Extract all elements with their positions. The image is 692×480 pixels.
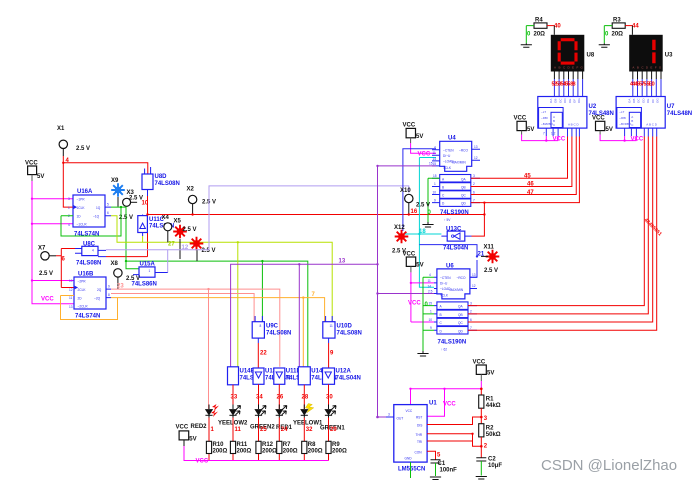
decoder U2 74LS48N: [538, 97, 614, 129]
svg-text:34: 34: [256, 395, 263, 401]
probe X12 (red lit): [392, 225, 408, 255]
svg-text:~1Q: ~1Q: [93, 215, 100, 219]
svg-text:11: 11: [235, 427, 242, 433]
svg-text:X5: X5: [174, 219, 182, 225]
svg-text:13: 13: [69, 305, 73, 309]
svg-text:X10: X10: [400, 188, 411, 194]
svg-text:14: 14: [433, 157, 437, 161]
and gate U8C: [75, 242, 106, 267]
svg-text:2.5 V: 2.5 V: [76, 146, 90, 152]
svg-text:1CLK: 1CLK: [77, 206, 86, 210]
flip-flop U16A 74LS74N: [68, 189, 111, 238]
wire purple clock distribution net13: [231, 264, 378, 367]
wire black display U3 pins: [633, 72, 661, 80]
svg-text:74LS04N: 74LS04N: [336, 376, 361, 382]
svg-text:15: 15: [433, 174, 437, 178]
svg-text:24: 24: [281, 427, 288, 433]
LED GREEN1: [320, 405, 345, 432]
svg-text:VCC: VCC: [41, 297, 54, 303]
svg-text:5V: 5V: [37, 174, 44, 180]
probe X10: [400, 188, 430, 215]
svg-text:6: 6: [470, 318, 472, 322]
svg-text:40: 40: [554, 24, 561, 30]
svg-text:X12: X12: [394, 225, 405, 231]
svg-text:X7: X7: [38, 246, 46, 252]
svg-text:CSDN @LionelZhao: CSDN @LionelZhao: [541, 457, 677, 474]
wire red U10D out net9: [328, 343, 330, 368]
svg-text:QB: QB: [461, 186, 466, 190]
svg-text:2.5: 2.5: [428, 289, 433, 293]
svg-text:OG: OG: [656, 98, 660, 103]
wire red X7 to U8C and U16B CLK: [56, 249, 75, 288]
svg-text:F: F: [655, 65, 657, 69]
svg-text:QB: QB: [458, 313, 463, 317]
svg-text:44: 44: [632, 24, 639, 30]
svg-text:E: E: [572, 65, 574, 69]
svg-text:~1CLR: ~1CLR: [77, 223, 88, 227]
svg-text:200Ω: 200Ω: [332, 449, 347, 455]
svg-text:26: 26: [277, 395, 284, 401]
svg-text:VCC: VCC: [592, 116, 605, 122]
LED RED1: [276, 405, 293, 432]
svg-text:VCC: VCC: [403, 123, 416, 129]
svg-text:OF: OF: [651, 99, 655, 103]
svg-text:R11: R11: [237, 442, 248, 448]
svg-text:R8: R8: [308, 442, 316, 448]
svg-text:11: 11: [428, 279, 432, 283]
svg-text:U10D: U10D: [337, 324, 353, 330]
svg-text:VCC: VCC: [514, 116, 527, 122]
svg-text:74LS08N: 74LS08N: [266, 331, 291, 337]
wire purple to U6 CLK: [378, 293, 435, 295]
VCC symbol (left rail): [25, 161, 44, 182]
resistor R3 20ohm: [612, 18, 626, 38]
wire green C2 to ground: [480, 461, 482, 476]
svg-text:50kΩ: 50kΩ: [486, 432, 501, 438]
svg-text:25: 25: [260, 427, 267, 433]
wire blue U7 bottom stubs: [625, 128, 657, 136]
svg-text:20Ω: 20Ω: [534, 32, 546, 38]
wire cyan X12 to U13C: [405, 233, 441, 235]
svg-text:2CLK: 2CLK: [78, 288, 87, 292]
wire green U4 A input to ground: [428, 178, 440, 222]
probe X5 (red lit): [173, 219, 196, 260]
node 48 49 50 51 (red rotated): [643, 217, 663, 237]
svg-text:~BI/RBO: ~BI/RBO: [619, 122, 632, 126]
svg-text:↑ 5V: ↑ 5V: [444, 218, 451, 222]
svg-text:OA: OA: [627, 99, 631, 103]
svg-text:5V: 5V: [606, 127, 613, 133]
svg-text:2: 2: [473, 182, 475, 186]
wire green C1 to ground: [435, 463, 437, 476]
svg-text:X11: X11: [484, 245, 495, 251]
inverter U13C: [441, 227, 471, 252]
svg-text:1 2: 1 2: [551, 132, 556, 136]
svg-text:12: 12: [69, 288, 73, 292]
svg-text:1Q: 1Q: [96, 206, 101, 210]
svg-text:8: 8: [108, 293, 110, 297]
svg-text:OF: OF: [573, 99, 577, 103]
VCC symbol (U2): [514, 116, 535, 135]
svg-text:1: 1: [434, 182, 436, 186]
wire green R4 to ground: [526, 26, 534, 44]
wire red LED RED2 to resistor R10: [208, 418, 210, 461]
svg-text:74LS04N: 74LS04N: [443, 246, 468, 252]
svg-text:~RCO: ~RCO: [457, 276, 466, 280]
wire green U6 inputs to ground: [423, 277, 434, 351]
svg-text:~2PR: ~2PR: [78, 280, 87, 284]
xor gate U15A: [98, 257, 168, 288]
wire blue U2 bottom stubs: [546, 128, 579, 136]
inverter U11D: [274, 368, 311, 384]
svg-text:5V: 5V: [487, 371, 494, 377]
wire magenta U7 VCC: [600, 135, 636, 141]
svg-text:45: 45: [524, 174, 531, 180]
svg-text:74LS190N: 74LS190N: [438, 340, 467, 346]
wire magenta VCC to U6 pins: [411, 272, 434, 322]
wire red net4 X1 to U8D and U16A CLK: [63, 156, 148, 207]
wire red CON to C1: [427, 451, 435, 459]
svg-text:74LS08N: 74LS08N: [76, 261, 101, 267]
resistor R8 200ohm: [302, 441, 323, 454]
probe X7: [38, 246, 56, 278]
wire red LED GREEN2 to resistor R12: [258, 418, 260, 461]
svg-text:TRI: TRI: [417, 440, 422, 444]
svg-text:74LS74N: 74LS74N: [75, 314, 100, 320]
wire salmon second branch: [111, 294, 254, 322]
svg-text:>CLK: >CLK: [440, 293, 449, 297]
counter U6 74LS190N: [428, 264, 478, 352]
wire red U8D output to net16: [106, 196, 148, 257]
resistor R11 200ohm: [230, 441, 251, 454]
seven segment display U3 (digit 1): [629, 35, 663, 72]
svg-text:7: 7: [473, 198, 475, 202]
svg-text:OUT: OUT: [397, 416, 404, 420]
svg-text:LM555CN: LM555CN: [398, 467, 425, 473]
decoder U7 74LS48N: [616, 97, 692, 129]
svg-text:U8D: U8D: [155, 174, 168, 180]
svg-text:9: 9: [108, 285, 110, 289]
svg-text:QD: QD: [461, 202, 466, 206]
wire cyan U4 LOAD to U6 LOAD: [419, 158, 436, 288]
svg-text:B: B: [559, 65, 561, 69]
svg-text:5V: 5V: [189, 437, 196, 443]
wire red R3 to display U3: [625, 25, 632, 27]
svg-text:2Q: 2Q: [97, 288, 102, 292]
svg-text:C2: C2: [488, 457, 496, 463]
svg-text:~2CLR: ~2CLR: [78, 305, 89, 309]
svg-text:200Ω: 200Ω: [262, 449, 277, 455]
svg-text:74LS74N: 74LS74N: [74, 232, 99, 238]
svg-text:27: 27: [168, 242, 175, 248]
svg-text:22: 22: [260, 351, 267, 357]
svg-text:A: A: [632, 65, 634, 69]
svg-text:10: 10: [429, 318, 433, 322]
svg-text:RST: RST: [416, 415, 422, 419]
svg-text:~LT: ~LT: [619, 110, 624, 114]
capacitor C1 100nF: [431, 460, 458, 474]
svg-text:R10: R10: [213, 442, 225, 448]
VCC symbol (U4): [403, 123, 424, 144]
svg-text:THR: THR: [416, 433, 423, 437]
wire magenta LED ground rail: [184, 446, 329, 461]
wire red THR TRI to junction 2: [427, 434, 481, 458]
svg-text:U1: U1: [429, 401, 437, 407]
svg-text:4: 4: [429, 273, 431, 277]
svg-text:74LS86N: 74LS86N: [132, 282, 157, 288]
VCC symbol (U7): [592, 116, 613, 135]
svg-text:DIS: DIS: [417, 424, 422, 428]
svg-text:10: 10: [69, 279, 73, 283]
wire red R1-R2 junction and DIS: [427, 408, 481, 424]
svg-text:~RBI: ~RBI: [541, 116, 548, 120]
svg-text:~2Q: ~2Q: [94, 297, 101, 301]
resistor R10 200ohm: [206, 441, 227, 454]
svg-text:13: 13: [472, 273, 476, 277]
svg-text:74LS08N: 74LS08N: [337, 331, 362, 337]
svg-text:GND: GND: [405, 457, 413, 461]
svg-text:>CLK: >CLK: [443, 166, 452, 170]
svg-text:46: 46: [527, 182, 534, 188]
svg-text:29: 29: [330, 427, 337, 433]
ground (U6): [417, 351, 428, 356]
svg-text:5: 5: [107, 203, 109, 207]
svg-text:16: 16: [411, 209, 418, 215]
and gate U8D: [142, 167, 180, 196]
wire red LED YEELOW1 to resistor R8: [303, 418, 305, 461]
svg-text:U3: U3: [665, 53, 673, 59]
svg-text:11: 11: [330, 324, 334, 328]
svg-text:14: 14: [428, 284, 432, 288]
wire green U16A 1Q long net: [111, 207, 308, 367]
and gate U9C: [252, 316, 291, 343]
wire purple main vertical (clock net): [377, 166, 379, 417]
svg-text:OB: OB: [632, 99, 636, 103]
resistor R4 20ohm: [534, 18, 548, 38]
svg-text:U2: U2: [589, 104, 597, 110]
svg-text:OE: OE: [646, 99, 650, 103]
svg-text:2.5 V: 2.5 V: [484, 268, 498, 274]
svg-text:QD: QD: [458, 329, 463, 333]
wire red U6 outputs to U7: [468, 137, 657, 331]
inverter U14B: [228, 367, 265, 385]
svg-text:~CTEN: ~CTEN: [440, 276, 451, 280]
wire red long net16: [148, 214, 485, 216]
svg-text:A B C D: A B C D: [568, 123, 580, 127]
VCC symbol (555): [473, 360, 495, 382]
ground (C1): [430, 477, 441, 480]
svg-text:1: 1: [68, 206, 70, 210]
svg-text:4: 4: [92, 249, 94, 253]
svg-text:C1: C1: [438, 461, 446, 467]
svg-text:200Ω: 200Ω: [308, 449, 323, 455]
probe X8: [111, 261, 141, 289]
svg-text:R9: R9: [332, 442, 340, 448]
svg-text:3: 3: [68, 197, 70, 201]
wire green U1 GND stub: [410, 462, 412, 478]
svg-text:VCC: VCC: [418, 152, 431, 158]
wire red gate outputs to LEDs: [233, 384, 329, 409]
inverter U11C: [138, 215, 175, 243]
wire black display U8 anode: [553, 26, 555, 35]
probe X11 (red lit): [481, 245, 499, 275]
resistor R2 50k: [479, 424, 501, 438]
wire red LED GREEN1 to resistor R9: [328, 418, 330, 461]
svg-text:13: 13: [474, 145, 478, 149]
svg-text:74LS190N: 74LS190N: [440, 210, 469, 216]
wire lime U16A ~1Q long net: [111, 216, 332, 367]
svg-text:U7: U7: [667, 104, 675, 110]
svg-text:OE: OE: [568, 99, 572, 103]
svg-text:YEELOW1: YEELOW1: [293, 421, 323, 427]
svg-text:R7: R7: [283, 442, 291, 448]
svg-text:9: 9: [434, 198, 436, 202]
svg-text:U4: U4: [448, 136, 456, 142]
inverter U14A: [298, 367, 336, 385]
svg-text:B: B: [440, 313, 442, 317]
wire red LED YEELOW2 to resistor R11: [232, 418, 234, 461]
wire magenta VCC to U4: [411, 143, 436, 153]
ground (R3): [599, 43, 610, 47]
svg-text:OB: OB: [554, 99, 558, 103]
svg-text:VCC: VCC: [443, 402, 456, 408]
wire black display U3 anode: [631, 26, 633, 35]
svg-text:D/~U: D/~U: [440, 282, 448, 286]
svg-text:1: 1: [430, 310, 432, 314]
svg-text:X2: X2: [187, 187, 195, 193]
svg-text:R1: R1: [486, 397, 494, 403]
svg-text:2: 2: [470, 310, 472, 314]
svg-text:VCC: VCC: [176, 425, 189, 431]
svg-text:~BI/RBO: ~BI/RBO: [541, 122, 554, 126]
svg-text:4: 4: [68, 223, 70, 227]
probe X3: [119, 190, 143, 221]
probe X9 (blue lit): [111, 178, 125, 207]
svg-text:12: 12: [472, 284, 476, 288]
inverter U13A: [253, 368, 290, 384]
svg-text:OA: OA: [549, 99, 553, 103]
wire blue X11 net: [419, 245, 477, 278]
svg-text:9: 9: [430, 326, 432, 330]
svg-text:44kΩ: 44kΩ: [486, 403, 501, 409]
VCC symbol (U6): [403, 252, 424, 273]
ground (U4): [422, 222, 433, 227]
svg-text:200Ω: 200Ω: [237, 449, 252, 455]
and gate U10D: [323, 316, 362, 343]
svg-text:A B C D: A B C D: [646, 123, 658, 127]
svg-text:15: 15: [429, 162, 433, 166]
svg-text:VCC: VCC: [406, 409, 413, 413]
wire green feedback loop U16A: [61, 207, 121, 236]
svg-text:U16A: U16A: [77, 189, 93, 195]
flip-flop U16B 74LS74N: [69, 272, 111, 320]
wire purple U1 OUT to clock net: [378, 416, 387, 418]
svg-text:52535455 88: 52535455 88: [552, 82, 576, 88]
wire salmon U16B 2Q nets: [111, 289, 280, 409]
counter U4 74LS190N: [432, 136, 480, 223]
svg-text:3: 3: [388, 413, 390, 417]
wire blue X12 net to U4 CTEN: [403, 149, 436, 231]
capacitor C2 10uF: [476, 457, 502, 470]
svg-text:F: F: [577, 65, 579, 69]
svg-text:2.5 V: 2.5 V: [126, 276, 140, 282]
svg-text:7: 7: [470, 326, 472, 330]
wire black display U8 pins: [554, 72, 582, 80]
svg-text:12: 12: [474, 156, 478, 160]
svg-text:A: A: [554, 65, 556, 69]
svg-text:74LS48N: 74LS48N: [667, 111, 692, 117]
probe X1: [57, 126, 90, 156]
wire red U9C out net22: [257, 343, 259, 368]
wire orange feedback loop U16B: [61, 296, 118, 320]
wire lavender U8C out / U15A out / to X10: [106, 186, 409, 273]
wire red R4 to display U8: [547, 25, 554, 27]
svg-text:B: B: [442, 186, 444, 190]
probe X2: [187, 187, 217, 215]
svg-text:28: 28: [302, 395, 309, 401]
svg-text:2.5 V: 2.5 V: [183, 227, 197, 233]
ground (R4): [521, 43, 532, 47]
svg-text:VCC: VCC: [631, 137, 644, 143]
svg-text:U12A: U12A: [336, 369, 352, 375]
wire green R3 to ground: [604, 26, 612, 44]
svg-text:RED2: RED2: [191, 424, 208, 430]
wire magenta 555 VCC rail: [411, 381, 482, 416]
svg-text:3: 3: [470, 301, 472, 305]
resistor R1 44k: [479, 389, 501, 409]
svg-text:X1: X1: [57, 126, 65, 132]
svg-text:QC: QC: [458, 321, 463, 325]
svg-text:U9C: U9C: [266, 324, 279, 330]
svg-text:20Ω: 20Ω: [612, 32, 624, 38]
LED RED2: [191, 404, 220, 430]
ground (C2): [476, 477, 487, 480]
seven segment display U8 (digit 0): [551, 35, 585, 72]
resistor R9 200ohm: [326, 441, 347, 454]
svg-text:R2: R2: [486, 426, 494, 432]
svg-text:10μF: 10μF: [488, 463, 502, 469]
wire orange U16B ~2Q net: [111, 298, 325, 367]
LED YEELOW2: [218, 405, 248, 427]
svg-text:10: 10: [433, 190, 437, 194]
LED GREEN2: [250, 405, 275, 431]
svg-text:2.5 V: 2.5 V: [416, 203, 430, 209]
svg-text:X9: X9: [111, 178, 119, 184]
wire magenta VCC rail left: [32, 181, 74, 304]
svg-text:32: 32: [306, 427, 313, 433]
svg-text:3: 3: [473, 174, 475, 178]
svg-text:6: 6: [107, 211, 109, 215]
wire magenta U2 VCC: [522, 135, 559, 141]
svg-text:5V: 5V: [416, 263, 423, 269]
svg-text:X4: X4: [162, 215, 170, 221]
svg-text:MAX/MIN: MAX/MIN: [450, 288, 464, 292]
svg-text:~CTEN: ~CTEN: [443, 148, 454, 152]
svg-text:15: 15: [429, 301, 433, 305]
svg-text:↑ 62: ↑ 62: [441, 348, 447, 352]
timer U1 LM555CN: [386, 401, 437, 473]
svg-text:X8: X8: [111, 261, 119, 267]
svg-text:6: 6: [473, 190, 475, 194]
svg-text:~RCO: ~RCO: [459, 148, 468, 152]
svg-text:5V: 5V: [416, 134, 423, 140]
wire red LED RED1 to resistor R7: [278, 418, 280, 461]
svg-text:B: B: [637, 65, 639, 69]
svg-text:~RBI: ~RBI: [619, 116, 626, 120]
svg-text:~LT: ~LT: [541, 110, 546, 114]
LED YEELOW1: [293, 404, 323, 427]
svg-text:VCC: VCC: [196, 459, 209, 465]
